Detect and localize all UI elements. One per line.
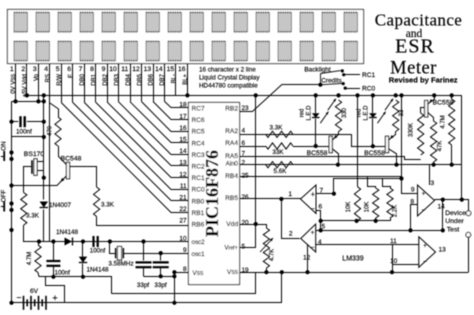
trimmer R13 4.7K	[266, 224, 268, 228]
resistor R3 3.3K	[94, 187, 100, 217]
svg-text:VSS: VSS	[227, 269, 239, 276]
wire RA4 33K row	[240, 146, 266, 148]
svg-text:3.3K: 3.3K	[270, 125, 284, 132]
svg-text:LM339: LM339	[342, 256, 364, 263]
wire RB2 to switches	[240, 85, 320, 112]
svg-text:10K: 10K	[364, 202, 370, 213]
wire Vss vertical	[174, 272, 176, 303]
resistor R2 470	[55, 117, 61, 146]
svg-text:−: −	[423, 259, 427, 266]
svg-text:23: 23	[242, 105, 250, 112]
svg-text:DB0: DB0	[80, 73, 86, 85]
svg-text:osc1: osc1	[192, 251, 206, 258]
svg-text:27: 27	[179, 218, 187, 225]
wire mid rail	[112, 272, 256, 293]
svg-text:3: 3	[431, 180, 435, 187]
svg-text:RC7: RC7	[192, 106, 206, 113]
wire 3.3K R3 to RB6	[97, 217, 189, 226]
svg-text:RB6: RB6	[192, 222, 205, 229]
capacitor C3 100nf	[92, 236, 94, 247]
node pin2 bus	[25, 93, 29, 97]
svg-text:33pf: 33pf	[154, 282, 167, 289]
wire RB4 row	[240, 176, 402, 178]
svg-text:RB2: RB2	[225, 105, 238, 112]
wire battery + path	[46, 277, 65, 303]
wire RB5 node	[240, 198, 281, 200]
svg-text:6V: 6V	[30, 288, 39, 295]
wire 7 input row	[316, 193, 334, 195]
device under test terminals	[468, 237, 470, 272]
wire 470 to base	[59, 146, 67, 165]
svg-text:Revised by Farinez: Revised by Farinez	[389, 76, 458, 85]
svg-text:E: E	[69, 74, 75, 78]
svg-text:BL+: BL+	[183, 74, 189, 85]
svg-text:RS: RS	[46, 74, 52, 82]
wire RA5 row to 330K	[240, 157, 421, 160]
svg-text:11: 11	[390, 238, 397, 245]
svg-text:Ain0: Ain0	[226, 160, 239, 167]
svg-text:12: 12	[179, 171, 187, 178]
svg-text:10: 10	[109, 66, 117, 73]
svg-text:4: 4	[242, 128, 246, 135]
svg-text:−: −	[17, 293, 22, 303]
wire ground rail	[12, 272, 282, 302]
svg-text:Liquid Crystal Display: Liquid Crystal Display	[199, 75, 260, 82]
wire 2.2K feed jog	[383, 179, 391, 189]
svg-text:18: 18	[179, 102, 187, 109]
node BL+ bus	[185, 93, 189, 97]
svg-text:15: 15	[179, 137, 187, 144]
svg-text:5: 5	[56, 66, 60, 73]
svg-text:DB5: DB5	[137, 73, 143, 85]
LCD module U2 16x2 display	[8, 10, 364, 64]
svg-text:33pf: 33pf	[137, 282, 150, 289]
wire 4 input row	[316, 244, 419, 246]
svg-text:Under: Under	[445, 218, 464, 225]
svg-text:L.E.D: L.E.D	[307, 105, 313, 121]
svg-text:BC558: BC558	[433, 99, 454, 106]
svg-text:DB3: DB3	[114, 73, 120, 85]
svg-text:red: red	[300, 109, 306, 118]
svg-text:BL-: BL-	[172, 74, 178, 83]
capacitor C2 100nf	[53, 242, 55, 261]
diode D1 1N4007	[40, 202, 48, 208]
wire 10 input	[392, 264, 419, 266]
svg-text:RB0: RB0	[192, 198, 205, 205]
svg-text:PIC16F876: PIC16F876	[202, 150, 222, 237]
wire LCD pin verticals	[15, 64, 17, 101]
svg-text:12: 12	[303, 255, 311, 262]
resistor R5 330	[335, 100, 341, 132]
svg-text:14: 14	[179, 148, 187, 155]
svg-text:3: 3	[33, 66, 37, 73]
node test row y=277	[39, 277, 112, 294]
svg-text:16: 16	[178, 66, 186, 73]
wire 3.3K to node	[24, 225, 44, 242]
svg-text:6: 6	[319, 203, 323, 210]
resistor R10 10K	[357, 95, 359, 186]
svg-text:17: 17	[179, 113, 187, 120]
svg-text:Vo: Vo	[34, 73, 40, 81]
svg-text:22: 22	[179, 206, 187, 213]
svg-text:+: +	[422, 190, 426, 197]
svg-text:Test: Test	[447, 227, 460, 234]
op-amp U3D LM339	[419, 237, 436, 268]
svg-text:RC2: RC2	[192, 164, 206, 171]
wire Ain0 5.6K row / collector rail	[240, 164, 462, 166]
crystal X1 3.58MHz	[110, 242, 116, 254]
wire BS170 gate	[24, 167, 32, 193]
svg-text:RC3: RC3	[192, 152, 206, 159]
svg-text:ESR: ESR	[395, 36, 435, 58]
svg-text:4.7K: 4.7K	[270, 249, 276, 261]
svg-text:11: 11	[121, 66, 128, 73]
svg-text:+: +	[423, 242, 427, 249]
wire RA2 3.3K row	[240, 134, 352, 136]
resistor R8 47K	[431, 121, 437, 162]
wire Q5 base	[421, 108, 425, 114]
svg-text:3.58MHz: 3.58MHz	[108, 261, 133, 268]
svg-text:26: 26	[242, 194, 250, 201]
svg-text:−: −	[311, 245, 315, 252]
op-amp U3B LM339	[301, 224, 316, 252]
wire left rail	[11, 101, 13, 302]
svg-text:470: 470	[48, 125, 54, 136]
svg-text:VSS: VSS	[193, 270, 204, 277]
wire Vdd pin20	[240, 224, 266, 226]
svg-text:330K: 330K	[409, 123, 415, 137]
capacitor C1 100nf	[12, 121, 19, 123]
svg-text:Vref+: Vref+	[224, 244, 238, 251]
svg-text:1N4148: 1N4148	[87, 267, 110, 274]
wire caps ground row	[144, 276, 175, 278]
wire BC548 emitter	[61, 176, 67, 182]
node pin3 Vo	[36, 99, 40, 103]
wire 33K to base node	[293, 146, 329, 148]
svg-text:6: 6	[67, 66, 71, 73]
svg-text:9: 9	[411, 187, 415, 194]
svg-text:RC0: RC0	[362, 86, 376, 93]
microcontroller U1 PIC16F876	[189, 103, 240, 285]
svg-text:14: 14	[438, 203, 446, 210]
op-amp U3C LM339	[418, 185, 435, 216]
wire data bus fan diagonals	[164, 101, 188, 107]
svg-text:100nf: 100nf	[55, 269, 71, 276]
svg-text:13: 13	[179, 160, 187, 167]
wire 9 input from bus	[402, 95, 418, 193]
svg-text:0V VSS: 0V VSS	[11, 73, 17, 93]
wire 0V line	[12, 101, 44, 103]
svg-text:4.7M: 4.7M	[441, 115, 447, 128]
wire RS to 470	[50, 103, 59, 117]
svg-text:1: 1	[288, 191, 292, 198]
svg-text:1: 1	[10, 66, 14, 73]
svg-text:10: 10	[390, 258, 398, 265]
resistor R1 3.3K	[21, 193, 27, 225]
svg-text:1N4007: 1N4007	[49, 202, 72, 209]
svg-text:10K: 10K	[346, 202, 352, 213]
svg-text:330: 330	[342, 107, 348, 118]
svg-text:DB7: DB7	[160, 73, 166, 85]
svg-text:5.6K: 5.6K	[274, 168, 288, 175]
wire BS170 drain node	[12, 136, 44, 138]
wire vertical +5/diode branch	[43, 95, 45, 199]
svg-text:RC1: RC1	[362, 72, 376, 79]
svg-text:RB5: RB5	[225, 195, 238, 202]
wire feedback to node	[442, 200, 444, 231]
wire BC548 collector	[70, 167, 97, 188]
svg-text:8: 8	[90, 66, 94, 73]
svg-text:2: 2	[21, 66, 25, 73]
svg-text:12: 12	[132, 66, 140, 73]
svg-text:9: 9	[102, 66, 106, 73]
svg-text:+: +	[311, 230, 315, 237]
wire osc2 node row	[25, 241, 189, 243]
svg-text:16: 16	[179, 125, 187, 132]
svg-text:47K: 47K	[438, 141, 444, 152]
svg-text:Vdd: Vdd	[226, 221, 238, 228]
node pin1 0V	[13, 99, 17, 103]
wire +V top bus	[27, 95, 462, 97]
svg-text:RC5: RC5	[192, 129, 206, 136]
svg-text:2: 2	[242, 160, 246, 167]
svg-text:Device: Device	[445, 210, 466, 217]
svg-text:6: 6	[242, 140, 246, 147]
resistor R12 2.2K	[387, 188, 393, 218]
wire Vdd Vref vertical	[255, 95, 257, 247]
wire opamp A output	[281, 198, 300, 200]
resistor R6 33	[393, 100, 399, 132]
svg-text:3.3K: 3.3K	[101, 202, 115, 209]
svg-text:13: 13	[439, 246, 447, 253]
wire 5 input row	[316, 230, 443, 232]
resistor R4 4.7M	[35, 245, 41, 273]
wire 6 input to resistor rail	[316, 211, 321, 231]
svg-text:RB1: RB1	[192, 210, 205, 217]
capacitor C4 33pf	[143, 242, 145, 261]
wire right edge vertical to DUT	[461, 95, 463, 199]
svg-text:L.E.D: L.E.D	[364, 105, 370, 121]
svg-text:RC6: RC6	[192, 117, 206, 124]
svg-text:OFF: OFF	[1, 190, 8, 203]
svg-text:11: 11	[180, 183, 187, 190]
svg-text:4.7M: 4.7M	[27, 252, 33, 265]
wire opamp C output	[435, 199, 462, 201]
svg-text:RC4: RC4	[192, 140, 206, 147]
svg-text:16 character x 2 line: 16 character x 2 line	[199, 67, 256, 74]
wire Vss pin8	[174, 272, 188, 274]
svg-text:RB4: RB4	[225, 173, 238, 180]
svg-text:DB1: DB1	[91, 73, 97, 85]
svg-text:BC558: BC558	[307, 150, 328, 157]
svg-text:+: +	[311, 192, 315, 199]
op-amp U3A LM339	[301, 185, 317, 214]
diode D3 1N4148 vertical	[82, 242, 84, 257]
svg-text:RA2: RA2	[225, 128, 238, 135]
svg-text:R/W: R/W	[57, 74, 63, 86]
svg-text:9: 9	[183, 247, 187, 254]
svg-text:osc2: osc2	[192, 239, 206, 246]
wire input7 riser line	[334, 179, 402, 194]
svg-text:−: −	[422, 207, 426, 214]
svg-text:BC558: BC558	[364, 150, 385, 157]
svg-text:1N4148: 1N4148	[56, 229, 79, 236]
svg-text:7: 7	[79, 66, 83, 73]
svg-text:4: 4	[44, 66, 48, 73]
svg-text:13: 13	[144, 66, 152, 73]
svg-text:+: +	[52, 293, 57, 303]
svg-text:HD44780 compatible: HD44780 compatible	[199, 83, 258, 90]
resistor R9 4.7M	[449, 99, 455, 145]
svg-text:33K: 33K	[272, 149, 284, 156]
svg-text:ON: ON	[1, 141, 8, 151]
svg-text:RA5: RA5	[225, 153, 238, 160]
capacitor C5 33pf	[160, 253, 162, 260]
svg-text:2.2K: 2.2K	[393, 205, 399, 217]
svg-text:RA4: RA4	[225, 140, 238, 147]
svg-text:20: 20	[242, 220, 250, 227]
wire Vss pin19 rail	[240, 272, 468, 274]
svg-text:Capacitance: Capacitance	[375, 11, 462, 30]
svg-text:3.3K: 3.3K	[26, 213, 40, 220]
wire 8 input	[411, 205, 418, 231]
svg-text:RC1: RC1	[192, 175, 206, 182]
svg-text:15: 15	[167, 66, 175, 73]
svg-text:RC0: RC0	[192, 187, 206, 194]
svg-text:100nf: 100nf	[16, 129, 32, 136]
bus junction nodes	[254, 93, 258, 97]
wire pin3 supply	[429, 165, 431, 185]
svg-text:21: 21	[179, 195, 187, 202]
svg-text:8: 8	[183, 266, 187, 273]
svg-text:14: 14	[155, 66, 163, 73]
svg-text:2: 2	[289, 231, 293, 238]
svg-text:−: −	[311, 206, 315, 213]
svg-text:BS170: BS170	[24, 151, 45, 158]
resistor R7 330K	[418, 113, 424, 155]
svg-text:100nf: 100nf	[90, 247, 106, 254]
resistor R11 10K	[368, 176, 376, 188]
wire osc1 row	[123, 253, 188, 255]
